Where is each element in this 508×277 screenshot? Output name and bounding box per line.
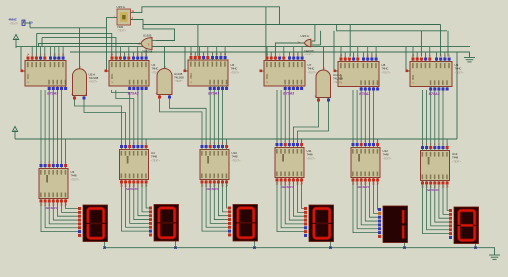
svg-text:B7SA3: B7SA3 — [359, 92, 370, 96]
svg-text:U11: U11 — [307, 149, 312, 153]
svg-text:B7SA3: B7SA3 — [47, 92, 58, 96]
svg-text:7490: 7490 — [110, 74, 113, 80]
wire U9 to U13 straight — [422, 90, 424, 146]
label U7 — [308, 63, 318, 74]
svg-text:B0: B0 — [29, 21, 33, 25]
svg-text:4MHZ: 4MHZ — [9, 18, 17, 22]
label U15:A — [117, 5, 127, 33]
svg-text:<TEXT>: <TEXT> — [305, 53, 314, 56]
wire DS3 common stub — [254, 241, 256, 248]
wire DS6 common stub — [475, 244, 477, 248]
svg-text:74HC: 74HC — [308, 67, 315, 71]
wire U2 to U4 straight — [137, 90, 139, 145]
wire DS4 common stub — [330, 242, 332, 248]
svg-text:ABCDEFG: ABCDEFG — [280, 185, 294, 189]
ground top-right — [464, 54, 475, 62]
wire BI net riser x457 — [456, 52, 458, 139]
rail drops to decoder pin7 — [65, 139, 67, 164]
svg-text:B7SA3: B7SA3 — [208, 92, 219, 96]
label U4 — [151, 151, 161, 162]
wire U14:B taps to U10 pins — [160, 99, 203, 145]
label U12 — [383, 149, 393, 160]
svg-text:U12: U12 — [383, 149, 389, 153]
7-segment display DS5 showing 1 — [378, 206, 408, 243]
wire U7 to U11 straight — [276, 90, 278, 143]
wire U15:A lower output to rail y24.5 — [131, 20, 175, 41]
wire U15:B input 2 to U6 left pin — [156, 47, 188, 72]
7-segment display DS6 showing 8 — [449, 207, 479, 244]
and gate U16:A (left-pointing, middle) — [298, 39, 314, 46]
wire clock run — [30, 27, 107, 29]
wire staircases decoders to displays — [41, 203, 78, 232]
svg-text:U1: U1 — [56, 56, 60, 60]
decoder U13 7448 — [421, 144, 450, 192]
7-segment display DS2 showing 0 — [149, 205, 179, 242]
svg-text:7448: 7448 — [383, 153, 389, 157]
decoder U12 7448 — [351, 141, 380, 189]
wire rail y52 to top-right ground — [70, 52, 470, 56]
decoder U3 7448 — [39, 162, 68, 210]
label U16:A — [301, 34, 315, 56]
counter U9 7490 — [406, 56, 453, 97]
power arrow top-left — [13, 35, 18, 49]
label U6 — [231, 63, 241, 74]
svg-text:ABCDEFG: ABCDEFG — [205, 187, 219, 191]
svg-text:U4: U4 — [151, 151, 155, 155]
wire U14:A output up — [323, 47, 325, 70]
svg-text:74LS08: 74LS08 — [89, 76, 99, 80]
svg-text:U7: U7 — [308, 63, 312, 67]
label U15:B — [142, 33, 153, 53]
label U5:A — [89, 73, 99, 84]
wire U16:A input 2 riser — [320, 31, 322, 45]
svg-text:7490: 7490 — [26, 74, 29, 80]
decoder U11 7448 — [275, 141, 304, 189]
junction at DS2 stub — [174, 247, 176, 249]
svg-text:B7SA3: B7SA3 — [128, 92, 139, 96]
svg-text:U2: U2 — [152, 63, 156, 67]
svg-text:B7SA3: B7SA3 — [429, 92, 440, 96]
wire elbow y24.5 to y30.8 — [337, 25, 447, 31]
svg-text:ABCDEFG: ABCDEFG — [125, 187, 139, 191]
svg-text:74LS08: 74LS08 — [174, 76, 184, 80]
svg-text:ABCDEFG: ABCDEFG — [356, 185, 370, 189]
svg-text:ABCDEFG: ABCDEFG — [44, 206, 58, 210]
decoder U4 7448 — [120, 143, 149, 191]
svg-text:7448: 7448 — [452, 156, 458, 160]
wire U5:A output up — [79, 28, 81, 69]
wire drop x197.9 to U6 pin — [197, 25, 199, 57]
svg-text:<TEXT>: <TEXT> — [333, 81, 343, 84]
label U14:A — [333, 73, 343, 84]
wire U2 to U4 short elbows — [112, 90, 130, 145]
wire bus H y37.6 — [41, 38, 43, 47]
svg-text:74HC: 74HC — [152, 67, 159, 71]
svg-text:U13: U13 — [452, 152, 458, 156]
svg-text:U9: U9 — [455, 63, 459, 67]
svg-text:U15:A: U15:A — [301, 34, 309, 38]
svg-text:<TEXT>: <TEXT> — [89, 81, 99, 84]
wire U6 to U10 straight — [209, 90, 211, 145]
wire U14:A taps to U11 pins — [293, 102, 318, 144]
svg-text:<TEXT>: <TEXT> — [455, 71, 465, 74]
wire bundle U1 to U3 — [40, 90, 42, 164]
svg-text:74HC08: 74HC08 — [304, 49, 314, 53]
and gate U14:A — [315, 68, 333, 102]
counter U2 7490 — [105, 55, 150, 96]
svg-text:<TEXT>: <TEXT> — [383, 157, 393, 160]
svg-text:7448: 7448 — [307, 153, 313, 157]
svg-text:74HC08: 74HC08 — [142, 50, 153, 54]
svg-text:<TEXT>: <TEXT> — [174, 80, 184, 83]
junction at DS5 stub — [403, 247, 405, 249]
counter U6 7490 — [184, 54, 229, 96]
label U14:B — [174, 72, 184, 83]
wire U15:A left pin drop to U2 left pin — [107, 18, 118, 71]
ground bottom-right — [489, 255, 500, 259]
wire U9 left pin feed — [406, 47, 410, 71]
and gate U5:A — [71, 67, 87, 100]
svg-text:7490: 7490 — [411, 75, 414, 81]
svg-text:<TEXT>: <TEXT> — [232, 159, 242, 162]
wire U16:A output to U7 pin riser — [275, 43, 304, 57]
wire drop x265.9 to U7 left pin — [264, 7, 266, 71]
wire counter top pin drops — [31, 47, 33, 57]
svg-text:<TEXT>: <TEXT> — [71, 178, 81, 181]
wire DS2 common stub — [175, 241, 177, 248]
wire U15:B output to left bus — [39, 44, 142, 47]
wire drop x350.2 to U8 pin — [349, 25, 351, 57]
svg-text:U3: U3 — [71, 170, 75, 174]
and gate U15:B (left-pointing) — [138, 38, 157, 50]
wire U15:A upper output rail y6.8 — [131, 7, 280, 25]
junction at DS6 stub — [474, 247, 476, 249]
svg-text:<TEXT>: <TEXT> — [382, 71, 392, 74]
and gate U15:A (top) — [114, 9, 135, 25]
svg-text:74HC: 74HC — [455, 67, 462, 71]
wire U16:A input 1 riser — [311, 25, 315, 42]
label U13 — [452, 152, 462, 163]
svg-text:U10: U10 — [232, 151, 238, 155]
power arrow mid-left — [12, 127, 17, 140]
label U1 — [56, 56, 60, 60]
power rail y139 — [15, 138, 457, 140]
wire drop right x448 — [447, 31, 449, 57]
wire U1 left pin feed — [21, 47, 25, 71]
7-segment display DS3 showing 0 — [228, 205, 258, 242]
and gate U14:B — [156, 67, 174, 100]
label U10 — [232, 151, 242, 162]
wire rail y24.5 — [143, 24, 441, 26]
svg-text:ABCDEFG: ABCDEFG — [426, 188, 440, 192]
label U8 — [382, 63, 392, 74]
svg-text:U15:B: U15:B — [143, 33, 151, 37]
junction at DS4 stub — [329, 247, 331, 249]
label U11 — [307, 149, 317, 160]
wire drop x440.5 to U9 pin — [440, 25, 442, 57]
svg-text:<TEXT>: <TEXT> — [308, 71, 318, 74]
svg-text:U8: U8 — [382, 63, 386, 67]
decoder U10 7448 — [200, 143, 229, 191]
svg-text:74LS08: 74LS08 — [333, 77, 343, 81]
svg-text:7448: 7448 — [232, 155, 238, 159]
counter U1 7490 — [21, 55, 68, 96]
label U9 — [455, 63, 465, 74]
svg-text:<TEXT>: <TEXT> — [10, 23, 20, 26]
junction at DS3 stub — [253, 247, 255, 249]
svg-text:7490: 7490 — [265, 74, 268, 80]
7-segment display DS1 showing 0 — [78, 205, 108, 242]
clock source CLK 4MHZ — [9, 18, 34, 28]
wire U8 to U12 straight — [352, 90, 354, 143]
junction at DS1 stub — [103, 247, 105, 249]
wire DS1 common stub — [104, 242, 106, 248]
wire drop to U8 left pin — [334, 31, 338, 71]
svg-text:<TEXT>: <TEXT> — [307, 157, 317, 160]
counter U7 7490 — [260, 55, 306, 96]
svg-text:<TEXT>: <TEXT> — [231, 71, 241, 74]
label U3 — [71, 170, 81, 181]
svg-text:U6: U6 — [231, 63, 235, 67]
svg-text:74HC: 74HC — [231, 67, 238, 71]
wire bus H y33.4 — [36, 33, 38, 46]
svg-text:<TEXT>: <TEXT> — [117, 29, 127, 32]
7-segment display DS4 showing 0 — [304, 205, 334, 242]
wire main rail y46.6 — [16, 46, 470, 48]
wire U5:A taps to U4 pins — [75, 100, 122, 146]
svg-text:7448: 7448 — [151, 155, 157, 159]
wire drop to U9 pin riser — [420, 31, 422, 57]
svg-text:7448: 7448 — [71, 174, 77, 178]
ground rail bottom — [105, 248, 495, 255]
svg-text:<TEXT>: <TEXT> — [151, 159, 161, 162]
svg-text:74HC: 74HC — [382, 67, 389, 71]
svg-text:U15:A: U15:A — [117, 5, 125, 9]
svg-text:7490: 7490 — [189, 73, 192, 79]
wire DS5 common stub — [404, 243, 406, 248]
label U2 — [152, 63, 162, 74]
svg-text:B7SA3: B7SA3 — [283, 92, 294, 96]
counter U8 7490 — [334, 56, 380, 97]
svg-text:<TEXT>: <TEXT> — [452, 160, 462, 163]
wire U14:B output up — [164, 47, 166, 69]
